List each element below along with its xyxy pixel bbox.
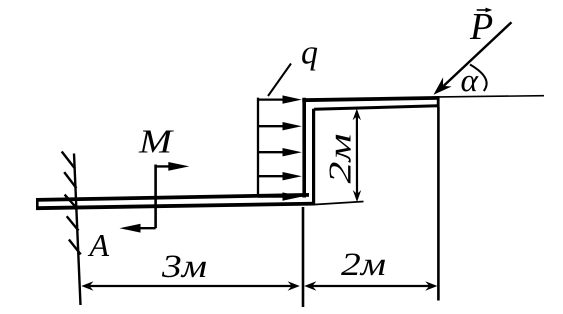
lower horizontal beam [36, 195, 315, 210]
support hatch 2 [64, 172, 76, 188]
fixed support A wall line [74, 154, 81, 306]
extension line right [437, 107, 440, 301]
svg-text:M: M [138, 124, 175, 161]
moment M couple [120, 162, 190, 233]
svg-text:2м: 2м [322, 134, 358, 184]
angle alpha arc [470, 65, 487, 92]
svg-text:P: P [469, 6, 493, 48]
load arrow 2 [258, 122, 302, 130]
upper horizontal beam [302, 96, 439, 109]
svg-text:3м: 3м [161, 249, 207, 285]
dimension 2m vertical arrow [353, 109, 362, 202]
load arrow 1 [258, 95, 302, 103]
extension line middle [302, 207, 305, 307]
svg-text:α: α [461, 63, 479, 99]
load arrow 3 [258, 148, 302, 156]
dimension 3m line [81, 281, 299, 290]
distributed load q left boundary [257, 98, 259, 197]
vertical beam segment [304, 98, 313, 204]
extension line at bottom of vertical beam [315, 202, 364, 205]
svg-text:A: A [88, 227, 110, 263]
leader line for q [268, 64, 291, 97]
load arrow 4 [258, 172, 302, 180]
dimension 2m line [304, 281, 437, 290]
support hatch 5 [69, 240, 81, 255]
angle reference line [440, 96, 545, 97]
support hatch 1 [62, 152, 75, 169]
support hatch 3 [65, 195, 76, 207]
label P with vector arrow [469, 6, 493, 48]
svg-text:2м: 2м [341, 247, 386, 283]
svg-text:q: q [301, 35, 318, 72]
support hatch 4 [67, 216, 79, 230]
load arrow 5 [258, 192, 302, 200]
force P arrow [434, 22, 512, 95]
